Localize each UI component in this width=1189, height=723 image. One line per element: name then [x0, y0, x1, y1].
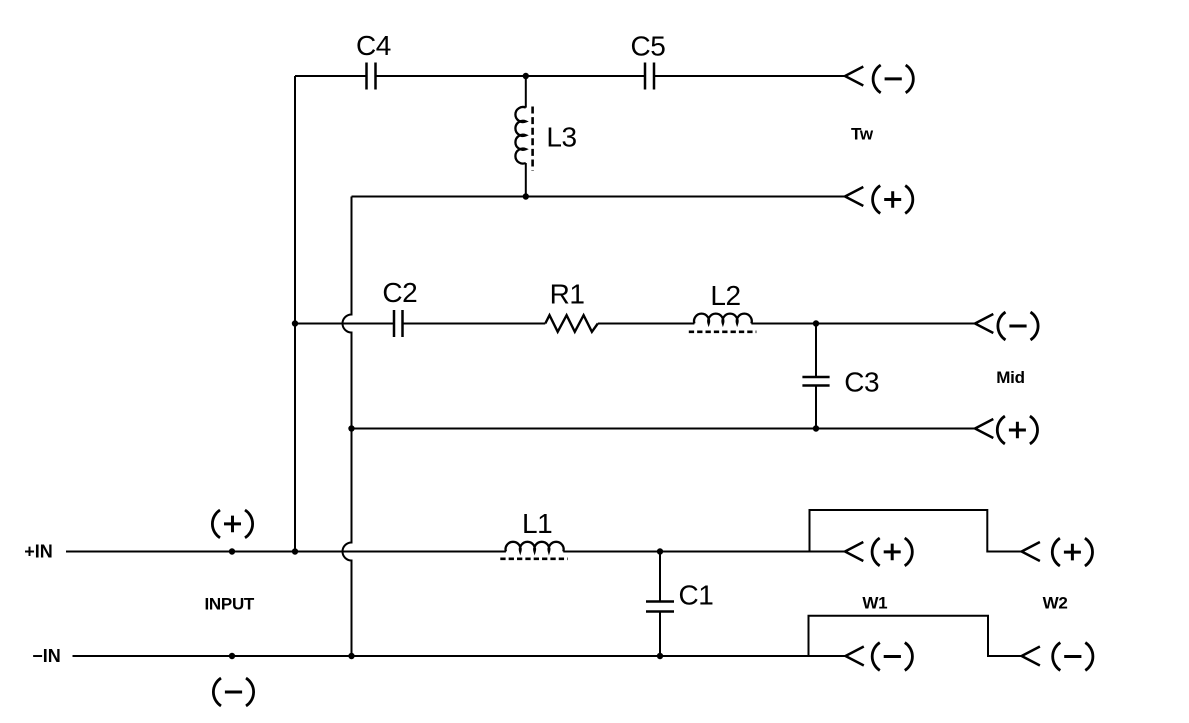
resistor R1: [545, 279, 598, 332]
connector arrow W1 minus: [846, 647, 864, 666]
connector arrow W1 plus: [845, 542, 863, 561]
wire tweeter plus row y=196.5: [352, 196, 846, 198]
node junction mid row on + rail: [292, 320, 298, 326]
inductor L3: [515, 76, 576, 197]
node junction C1 bottom: [657, 653, 663, 659]
svg-text:L2: L2: [710, 280, 740, 311]
capacitor C5: [631, 31, 666, 90]
terminal label W1 plus: [872, 538, 912, 566]
capacitor C4: [356, 30, 391, 90]
svg-text:C5: C5: [631, 31, 666, 62]
wire -IN row y=656: [73, 655, 846, 657]
wire mid plus row y=428.5: [352, 428, 976, 430]
terminal label tweeter minus: [873, 65, 913, 93]
svg-text:+IN: +IN: [24, 542, 53, 562]
terminal label mid minus: [998, 312, 1038, 340]
wire tweeter minus row y=76: [295, 75, 845, 77]
terminal label mid plus: [997, 416, 1037, 444]
svg-text:INPUT: INPUT: [205, 594, 255, 613]
node junction C3 top: [813, 320, 819, 326]
connector arrow W2 plus: [1022, 542, 1040, 561]
svg-text:C3: C3: [844, 367, 879, 398]
capacitor C1: [646, 552, 713, 657]
terminal label input minus: [213, 678, 253, 706]
svg-text:Tw: Tw: [851, 125, 874, 144]
connector arrow W2 minus: [1022, 647, 1040, 666]
node junction L3 top: [523, 73, 529, 79]
svg-text:L3: L3: [546, 121, 576, 152]
node junction C1 top: [657, 548, 663, 554]
node junction L3 bottom: [523, 193, 529, 199]
node input plus terminal point: [229, 548, 235, 554]
terminal label tweeter plus: [873, 186, 913, 214]
svg-text:−IN: −IN: [32, 646, 61, 666]
capacitor C3: [802, 327, 879, 429]
connector arrow mid plus: [975, 419, 993, 438]
terminal label input plus: [212, 510, 252, 538]
inductor L1: [500, 508, 567, 559]
terminal label W2 plus: [1052, 538, 1092, 566]
capacitor C2: [382, 277, 417, 337]
wire jumper W1 plus to W2 plus: [810, 510, 1022, 552]
node junction + rail bottom: [292, 548, 298, 554]
terminal label W2 minus: [1053, 643, 1093, 671]
svg-text:R1: R1: [550, 279, 585, 310]
terminal label W1 minus: [872, 643, 912, 671]
wire vertical rail from +IN to top row: [294, 76, 296, 552]
node junction - rail bottom: [348, 653, 354, 659]
svg-text:Mid: Mid: [996, 368, 1024, 387]
svg-text:C1: C1: [679, 580, 714, 611]
wire jumper W1 minus to W2 minus: [809, 616, 1022, 656]
wire mid minus row y=323.5: [295, 323, 975, 325]
wire vertical rail from -IN to tweeter plus row (hops over crossing wires): [343, 197, 352, 657]
connector arrow tweeter plus: [845, 187, 863, 206]
inductor L2: [689, 280, 757, 332]
node junction C3 bottom: [813, 425, 819, 431]
node junction mid plus on - rail: [348, 425, 354, 431]
connector arrow tweeter minus: [845, 67, 863, 86]
connector arrow mid minus: [975, 314, 993, 333]
svg-text:C2: C2: [382, 277, 417, 308]
svg-text:C4: C4: [356, 30, 391, 61]
svg-text:W1: W1: [862, 594, 887, 613]
svg-text:L1: L1: [522, 508, 552, 539]
wire +IN row y=551.5: [66, 551, 845, 553]
node input minus terminal point: [229, 653, 235, 659]
svg-text:W2: W2: [1043, 594, 1068, 613]
